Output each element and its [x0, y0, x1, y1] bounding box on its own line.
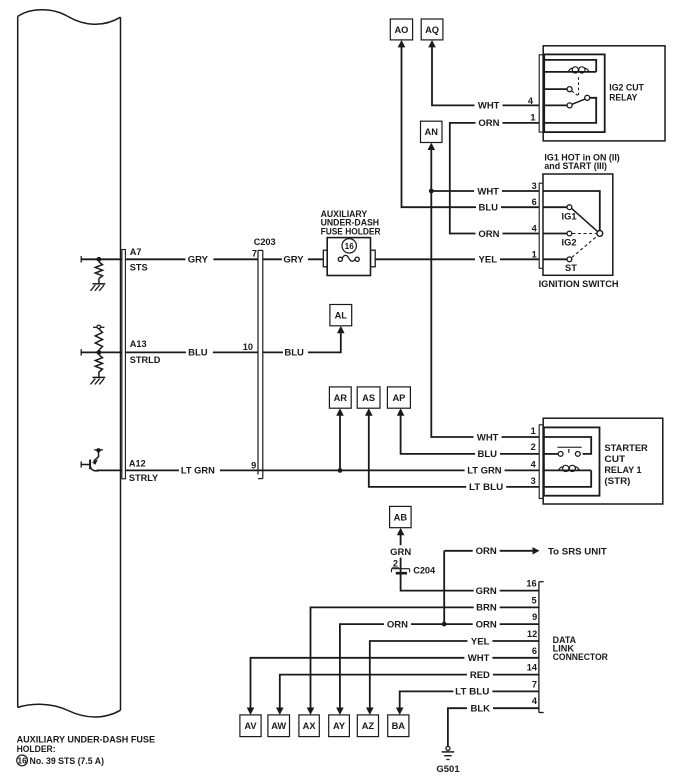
arrow into AO: [398, 40, 406, 47]
svg-text:A13: A13: [130, 339, 147, 349]
ground G501: [442, 746, 455, 759]
svg-text:AW: AW: [271, 721, 286, 731]
label LT BLU (DLC7): [453, 686, 492, 697]
svg-text:AV: AV: [244, 721, 257, 731]
connector C204: [392, 569, 410, 574]
pin 2 starter relay: [531, 442, 536, 452]
svg-text:GRN: GRN: [390, 547, 411, 558]
svg-text:CONNECTOR: CONNECTOR: [553, 652, 609, 662]
svg-text:2: 2: [393, 559, 398, 569]
pin 1 ignition: [532, 249, 537, 259]
wire BLK DLC pin 4 to G501: [448, 708, 539, 746]
label ST: [565, 263, 577, 273]
starter cut relay inner box: [544, 427, 600, 495]
label IG1: [562, 211, 577, 221]
arrow into AS: [365, 408, 373, 415]
pin 6 ignition: [532, 197, 537, 207]
svg-text:7: 7: [252, 249, 257, 259]
label G501: [436, 764, 460, 775]
svg-text:12: 12: [527, 629, 537, 639]
connector box AQ: [421, 19, 443, 40]
connector box AP: [387, 387, 410, 408]
junction dot A13: [97, 350, 102, 355]
pin 4 ignition: [532, 224, 538, 234]
ignition dashed ST link: [572, 236, 597, 257]
ignition pin3 internal wire: [543, 191, 600, 230]
data link connector bracket: [539, 582, 544, 713]
svg-text:BLU: BLU: [477, 449, 497, 460]
svg-text:G501: G501: [436, 764, 460, 775]
svg-text:RELAY 1: RELAY 1: [604, 465, 642, 476]
svg-text:WHT: WHT: [477, 186, 499, 197]
fuse element F16: [338, 255, 359, 261]
pin 3 ignition: [532, 181, 537, 191]
svg-text:RED: RED: [470, 670, 490, 681]
wire A13 internal lead: [81, 349, 99, 355]
transistor Q (output driver at A12): [81, 448, 103, 471]
label WHT (DLC6): [464, 653, 492, 664]
svg-text:AB: AB: [394, 512, 408, 522]
pin 5 DLC: [531, 595, 536, 605]
wire AP to BLU (starter relay pin 2): [401, 415, 543, 454]
svg-text:C204: C204: [413, 565, 436, 575]
svg-text:AL: AL: [335, 310, 348, 320]
wire YEL DLC pin 12 to AZ: [370, 641, 539, 709]
svg-text:AX: AX: [303, 721, 317, 731]
wire WHT DLC pin 6 to AV: [251, 658, 539, 709]
internal supply terminal above A13: [93, 325, 104, 329]
pin 4 IG2 relay: [528, 96, 534, 106]
svg-text:To SRS UNIT: To SRS UNIT: [548, 547, 607, 558]
pin 9 C203: [251, 460, 256, 470]
label C203: [254, 237, 276, 247]
connector box AR: [329, 387, 351, 408]
svg-text:16: 16: [526, 579, 536, 589]
svg-text:LT BLU: LT BLU: [469, 482, 503, 493]
label IG1 HOT: [544, 152, 619, 170]
pin 7 DLC: [532, 679, 537, 689]
starter cut relay outer box: [543, 418, 663, 504]
pin 1 IG2 relay: [530, 113, 535, 123]
svg-text:10: 10: [243, 342, 253, 352]
arrow to SRS: [533, 547, 540, 554]
svg-text:CUT: CUT: [604, 454, 625, 465]
svg-text:BLU: BLU: [478, 203, 498, 214]
label IG2: [562, 238, 577, 248]
wire RED DLC pin 14 to AW: [280, 675, 539, 710]
starter relay switch: [543, 437, 591, 456]
fuse holder box: [323, 238, 375, 276]
fuse holder title: [321, 209, 382, 237]
IG2 relay common contact: [585, 95, 590, 100]
svg-text:GRN: GRN: [476, 586, 497, 597]
arrow into AP: [397, 408, 405, 415]
junction dot AN/WHT: [429, 189, 434, 194]
label BRN (DLC5): [474, 602, 500, 613]
label GRY (left): [185, 254, 213, 265]
svg-text:AQ: AQ: [425, 25, 439, 35]
svg-text:BRN: BRN: [476, 603, 497, 614]
arrow into AW: [276, 708, 284, 715]
arrow into AL: [337, 326, 345, 333]
svg-text:IG2: IG2: [562, 238, 577, 248]
pin 16 DLC: [526, 579, 536, 589]
label LT GRN (left): [179, 465, 220, 476]
wire AR to LT GRN junction: [339, 415, 341, 471]
wire ORN to SRS unit: [444, 550, 532, 552]
ignition ST contact: [543, 257, 572, 262]
connector box AL: [330, 305, 352, 326]
svg-text:9: 9: [251, 460, 256, 470]
connector box AY: [329, 715, 350, 737]
label IG2 CUT RELAY: [609, 83, 644, 104]
junction dot SRS/ORN: [442, 622, 447, 627]
ignition switch box: [543, 174, 613, 275]
pin 3 starter relay: [531, 476, 536, 486]
IG2 relay contact B (pin 4): [543, 103, 572, 108]
label STARTER CUT RELAY 1 (STR): [604, 443, 648, 487]
svg-text:14: 14: [527, 663, 538, 673]
label C204: [413, 565, 436, 575]
svg-text:WHT: WHT: [468, 653, 490, 664]
label To SRS UNIT: [548, 547, 607, 558]
svg-text:AY: AY: [333, 721, 346, 731]
svg-text:AN: AN: [425, 127, 439, 137]
svg-text:6: 6: [532, 197, 537, 207]
label WHT (starter pin1): [474, 432, 502, 443]
wire GRY C203 to fuse: [263, 258, 339, 260]
ground at A7: [91, 284, 106, 291]
connector box BA: [388, 715, 409, 737]
ignition common contact: [597, 231, 603, 237]
svg-text:9: 9: [532, 612, 537, 622]
connector C203: [258, 250, 263, 478]
label BLK (DLC4): [467, 703, 493, 714]
svg-text:ORN: ORN: [478, 118, 499, 129]
resistor at A7: [95, 262, 102, 284]
connector box AS: [357, 387, 380, 408]
arrow into AZ: [366, 708, 374, 715]
label LT GRN (starter pin4): [465, 465, 505, 476]
label GRN (DLC16): [474, 586, 500, 597]
connector box AX: [299, 715, 319, 737]
connector box AB: [390, 506, 412, 527]
svg-text:ORN: ORN: [478, 229, 499, 240]
ignition IG2 contact: [543, 231, 572, 236]
IG2 cut relay outer box: [543, 46, 665, 141]
pin label A13/STRLD: [130, 339, 161, 365]
note auxiliary fuse holder: [17, 735, 155, 755]
svg-text:4: 4: [532, 696, 538, 706]
wire A7 to pin: [99, 258, 122, 260]
svg-text:ORN: ORN: [387, 619, 408, 630]
wire AS to LT BLU (starter relay pin 3): [369, 415, 543, 487]
wire AQ to WHT (IG2 relay pin 4): [432, 46, 543, 105]
svg-text:STRLD: STRLD: [130, 355, 161, 365]
pin 4 DLC: [532, 696, 538, 706]
pin 6 DLC: [532, 646, 537, 656]
arrow into AY: [336, 708, 344, 715]
label GRY (right of C203): [282, 254, 308, 265]
svg-text:1: 1: [531, 426, 536, 436]
svg-text:16: 16: [345, 242, 355, 251]
label ORN (DLC9): [473, 619, 500, 630]
wire GRY A7 to C203: [125, 258, 258, 260]
svg-text:5: 5: [531, 595, 536, 605]
svg-text:STRLY: STRLY: [129, 473, 158, 483]
svg-text:WHT: WHT: [478, 101, 500, 112]
svg-text:AP: AP: [392, 393, 405, 403]
coil IG2 relay: [568, 67, 589, 73]
arrow into AN: [428, 143, 436, 150]
wire BLU A13 to C203: [125, 351, 258, 353]
svg-text:BLU: BLU: [284, 348, 304, 359]
label GRN (AB wire): [390, 546, 412, 558]
wire GRN AB via C204 to DLC pin 16: [401, 535, 539, 591]
svg-text:7: 7: [532, 679, 537, 689]
svg-text:LT GRN: LT GRN: [181, 466, 215, 477]
label DATA LINK CONNECTOR: [553, 635, 609, 662]
svg-text:6: 6: [532, 646, 537, 656]
svg-text:ORN: ORN: [476, 546, 497, 557]
svg-text:AR: AR: [334, 393, 348, 403]
svg-text:16: 16: [18, 757, 28, 766]
connector box AV: [240, 715, 261, 737]
label WHT (IG2 pin4): [475, 100, 503, 111]
IG2 cut relay inner box: [544, 54, 605, 132]
label YEL (DLC12): [467, 636, 492, 647]
wire ORN IG2 relay pin1 to ignition pin 4: [450, 123, 543, 234]
svg-text:2: 2: [531, 442, 536, 452]
label IGNITION SWITCH: [539, 279, 619, 290]
svg-text:3: 3: [531, 476, 536, 486]
svg-text:C203: C203: [254, 237, 276, 247]
wire A13 to pin: [99, 351, 122, 353]
connector bracket ignition switch: [539, 183, 543, 268]
pin 9 DLC: [532, 612, 537, 622]
IG2 relay common to pin 1: [543, 98, 596, 123]
control unit (torn harness outline): [18, 10, 121, 717]
label RED (DLC14): [467, 670, 493, 681]
svg-text:and START (III): and START (III): [544, 161, 607, 171]
wire LT GRN A12 to starter relay pin 4: [125, 469, 543, 471]
wire ORN DLC pin 9 to AY: [340, 624, 539, 709]
wire A7 internal lead: [81, 256, 99, 262]
svg-text:AO: AO: [394, 25, 408, 35]
pin 7 C203: [252, 249, 257, 259]
wire BRN DLC pin 5 to AX: [311, 607, 539, 709]
resistor A13 lower: [95, 355, 102, 377]
wire AO to BLU (ignition pin 6): [402, 46, 544, 207]
label BLU (ign pin6): [476, 202, 501, 213]
connector box AZ: [357, 715, 378, 737]
svg-text:A12: A12: [129, 459, 146, 469]
ignition dashed IG2 link: [572, 233, 596, 235]
svg-text:IG1: IG1: [562, 211, 577, 221]
pin 14 DLC: [527, 663, 538, 673]
resistor A13 upper (pull-up): [95, 329, 102, 353]
svg-text:GRY: GRY: [283, 255, 304, 266]
svg-text:AS: AS: [362, 393, 375, 403]
label ORN (IG2 pin1): [476, 118, 503, 129]
ignition IG1 contact: [543, 205, 572, 210]
connector box AO: [390, 19, 412, 40]
svg-text:HOLDER:: HOLDER:: [17, 744, 56, 755]
svg-text:WHT: WHT: [477, 432, 499, 443]
label ORN (left of DLC9): [384, 619, 411, 630]
connector bracket A (control unit pins A7/A13/A12): [122, 250, 126, 479]
junction dot AR/LT GRN: [338, 468, 343, 473]
ignition blade IG1: [572, 208, 598, 231]
label BLU (right of C203): [283, 347, 308, 358]
wire WHT ignition pin 3: [431, 190, 543, 192]
wire A12 to pin: [97, 469, 122, 471]
pin 1 starter relay: [531, 426, 536, 436]
svg-text:STARTER: STARTER: [604, 443, 648, 454]
label YEL (ign pin1): [475, 254, 500, 265]
svg-text:LT GRN: LT GRN: [467, 466, 502, 477]
svg-text:No. 39 STS (7.5 A): No. 39 STS (7.5 A): [30, 756, 105, 767]
svg-text:3: 3: [532, 181, 537, 191]
IG2 relay coil circuit: [544, 60, 596, 72]
connector box AN: [421, 121, 443, 142]
wire BLU C203 to AL corner: [263, 332, 341, 353]
connector bracket IG2 relay: [539, 55, 543, 132]
svg-text:AZ: AZ: [362, 721, 375, 731]
pin label A12/STRLY: [129, 459, 158, 484]
wire LT BLU DLC pin 7 to BA: [400, 691, 539, 709]
label BLU (starter pin2): [475, 449, 500, 460]
svg-text:YEL: YEL: [471, 636, 490, 647]
label BLU (left): [186, 347, 213, 358]
svg-text:ST: ST: [565, 263, 577, 273]
svg-text:ORN: ORN: [476, 619, 497, 630]
label ORN (ign pin4): [476, 229, 503, 240]
note fuse 16 rating: [17, 755, 104, 767]
svg-text:FUSE HOLDER: FUSE HOLDER: [321, 226, 382, 236]
wire YEL fuse to ignition pin 1: [359, 258, 543, 260]
wire ORN SRS vertical: [443, 551, 445, 624]
arrow into AR: [336, 408, 344, 415]
svg-text:(STR): (STR): [604, 476, 630, 487]
svg-text:LT BLU: LT BLU: [455, 687, 489, 698]
fuse 16 circled label: [342, 239, 356, 253]
arrow into AQ: [428, 40, 436, 47]
label WHT (ign pin3): [474, 186, 502, 197]
pin 12 DLC: [527, 629, 537, 639]
svg-text:RELAY: RELAY: [609, 93, 638, 104]
pin 4 starter relay: [531, 460, 537, 470]
label ORN (to SRS): [473, 546, 500, 557]
svg-text:1: 1: [532, 249, 537, 259]
junction dot A7: [97, 257, 102, 262]
connector bracket starter relay: [539, 425, 543, 499]
arrow into AX: [307, 708, 315, 715]
pin 10 C203: [243, 342, 253, 352]
IG2 relay contact A: [544, 87, 572, 92]
svg-text:YEL: YEL: [479, 255, 498, 266]
arrow into AV: [247, 708, 255, 715]
svg-text:GRY: GRY: [188, 255, 209, 266]
starter relay coil circuit: [543, 470, 591, 487]
svg-text:BA: BA: [392, 721, 406, 731]
IG2 relay blade: [572, 99, 585, 104]
svg-text:BLK: BLK: [470, 704, 490, 715]
svg-text:STS: STS: [130, 262, 148, 272]
svg-text:1: 1: [530, 113, 535, 123]
svg-text:A7: A7: [130, 247, 142, 257]
IG2 relay dashed actuator: [572, 77, 579, 95]
ground at A13: [91, 377, 106, 384]
svg-text:4: 4: [532, 224, 538, 234]
wire AN down to WHT starter relay pin 1: [431, 149, 543, 437]
coil starter relay: [559, 465, 580, 471]
arrow into AB: [397, 528, 405, 535]
svg-text:IGNITION SWITCH: IGNITION SWITCH: [539, 279, 619, 290]
arrow into BA: [396, 708, 404, 715]
svg-text:BLU: BLU: [188, 348, 208, 359]
label LT BLU (starter pin3): [466, 482, 506, 493]
connector box AW: [268, 715, 290, 737]
pin 2 C204: [392, 559, 399, 569]
pin label A7/STS: [130, 247, 148, 272]
svg-text:4: 4: [531, 460, 537, 470]
svg-text:4: 4: [528, 96, 534, 106]
